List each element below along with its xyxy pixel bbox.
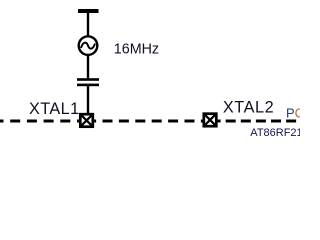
- svg-text:AT86RF21: AT86RF21: [250, 127, 300, 139]
- wire: ground bar to AC source: [87, 12, 89, 36]
- chip boundary (dashed), left of XTAL1: [0, 120, 79, 123]
- svg-text:XTAL1: XTAL1: [29, 100, 80, 118]
- svg-text:XTAL2: XTAL2: [223, 99, 274, 117]
- svg-text:PC: PC: [286, 105, 300, 120]
- pin XTAL2 (crossed-square pad): [204, 114, 217, 127]
- chip boundary (dashed), between XTAL1 and XTAL2: [94, 120, 202, 123]
- ground (top bar termination of clock source): [78, 9, 99, 13]
- svg-text:16MHz: 16MHz: [114, 41, 159, 57]
- wire: capacitor to XTAL1 pin: [87, 86, 89, 114]
- pin XTAL1 (crossed-square pad): [80, 114, 93, 127]
- AC source (external 16MHz sine oscillator): [79, 36, 98, 55]
- chip boundary (dashed), right of XTAL2: [218, 120, 297, 123]
- wire: AC source to capacitor: [87, 55, 89, 79]
- capacitor (series coupling cap): [77, 78, 99, 86]
